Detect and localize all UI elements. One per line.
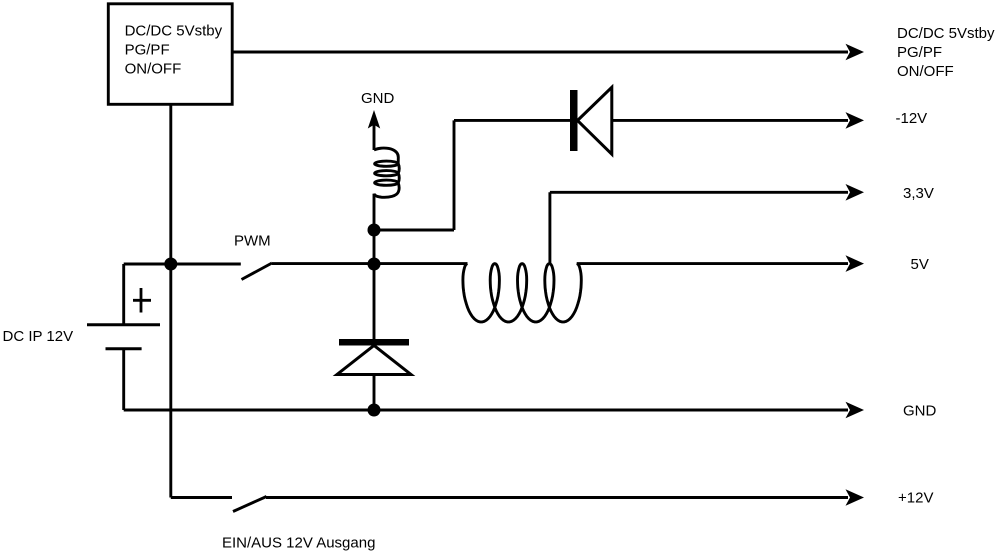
wire: PWM switch to 5V inductor <box>272 262 468 265</box>
inductor L2 (GND filter coil, vertical) <box>374 148 399 197</box>
label: plus sign <box>133 288 151 313</box>
wire: battery negative lead <box>122 349 125 410</box>
node: junction GND line / diode anode <box>368 404 381 417</box>
wire: -12V branch horizontal at y230 <box>374 229 454 232</box>
switch EIN/AUS blade (open) <box>233 497 267 512</box>
svg-text:GND: GND <box>361 90 395 107</box>
block U1 DC/DC converter box <box>108 4 232 105</box>
arrow: 3.3V output <box>846 184 865 201</box>
ground GND symbol (arrow up) <box>361 90 395 150</box>
coil ring 1 <box>375 161 399 166</box>
switch PWM blade (open) <box>242 263 273 280</box>
wire: switch to +12V output arrow <box>266 496 848 499</box>
svg-text:DC/DC 5Vstby: DC/DC 5Vstby <box>897 25 995 42</box>
arrow: GND output <box>846 402 865 419</box>
wire: -12V branch vertical riser <box>453 120 456 230</box>
svg-text:-12V: -12V <box>896 110 928 127</box>
wire: coil bottom to -12V tap node and main line node <box>373 194 376 264</box>
diode D1 (-12V rectifier) cathode bar <box>570 90 578 151</box>
svg-text:DC IP 12V: DC IP 12V <box>3 328 74 345</box>
coil exit hook <box>374 183 399 198</box>
label U1 text: DC/DC 5Vstby / PG/PF / ON/OFF <box>125 23 223 78</box>
diode D1 triangle <box>578 87 612 154</box>
svg-text:ON/OFF: ON/OFF <box>125 61 182 78</box>
coil ring 3 <box>375 180 399 185</box>
wire: battery positive lead <box>122 264 125 325</box>
diode D2 (freewheel) cathode bar <box>339 339 409 346</box>
wire: 3.3V line to output arrow <box>550 191 848 194</box>
wire: inductor to 5V output arrow <box>577 262 848 265</box>
node: junction battery+/box feed/PWM <box>164 258 177 271</box>
arrow: -12V output <box>846 112 865 129</box>
svg-text:GND: GND <box>903 403 937 420</box>
coil entry hook <box>374 148 398 164</box>
svg-text:PG/PF: PG/PF <box>125 42 170 59</box>
battery plate positive (long) <box>87 323 160 326</box>
wire: diode to -12V output arrow <box>612 119 848 122</box>
wire: -12V line to diode cathode <box>454 119 570 122</box>
coil ring 2 <box>375 171 399 176</box>
svg-text:5V: 5V <box>911 256 929 273</box>
wire: battery + to node on main line <box>124 263 241 266</box>
arrow: GND up <box>368 110 380 129</box>
coil connector 1-2 <box>398 164 399 174</box>
label output: DC/DC 5Vstby / PG/PF / ON/OFF <box>897 25 995 80</box>
wire: box bottom down to +12V input node <box>169 104 172 264</box>
inductor L1 (5V buck coil, 4 loops) <box>463 264 581 322</box>
battery B1 DC IP 12V <box>87 264 160 410</box>
svg-text:+12V: +12V <box>898 490 933 507</box>
wire: EIN/AUS switch left lead <box>171 496 232 499</box>
wire: diode anode down to GND line <box>373 376 376 410</box>
node: junction GND-coil / -12V branch <box>368 224 381 237</box>
battery plate negative (short) <box>106 347 142 350</box>
arrow: top signal output <box>846 44 865 61</box>
wire: vertical continues down to EIN/AUS switch <box>169 264 172 498</box>
svg-text:ON/OFF: ON/OFF <box>897 63 954 80</box>
coil connector 2-3 <box>398 173 399 183</box>
wire: node down to freewheel diode <box>373 264 376 339</box>
arrow: 5V output <box>846 255 865 272</box>
diode D2 triangle <box>337 345 411 374</box>
arrow: +12V output <box>846 489 865 506</box>
wire: top signal line from box to output arrow <box>232 51 848 54</box>
wire: 3.3V tap riser from inductor <box>548 192 551 263</box>
node: junction 5V line / freewheel diode <box>368 258 381 271</box>
svg-text:PWM: PWM <box>234 233 271 250</box>
svg-text:PG/PF: PG/PF <box>897 44 942 61</box>
svg-text:3,3V: 3,3V <box>903 185 934 202</box>
wire: GND return line to output arrow <box>124 409 848 412</box>
svg-text:EIN/AUS 12V Ausgang: EIN/AUS 12V Ausgang <box>222 535 375 552</box>
svg-text:DC/DC 5Vstby: DC/DC 5Vstby <box>125 23 223 40</box>
wire: GND arrow shaft <box>373 124 376 150</box>
